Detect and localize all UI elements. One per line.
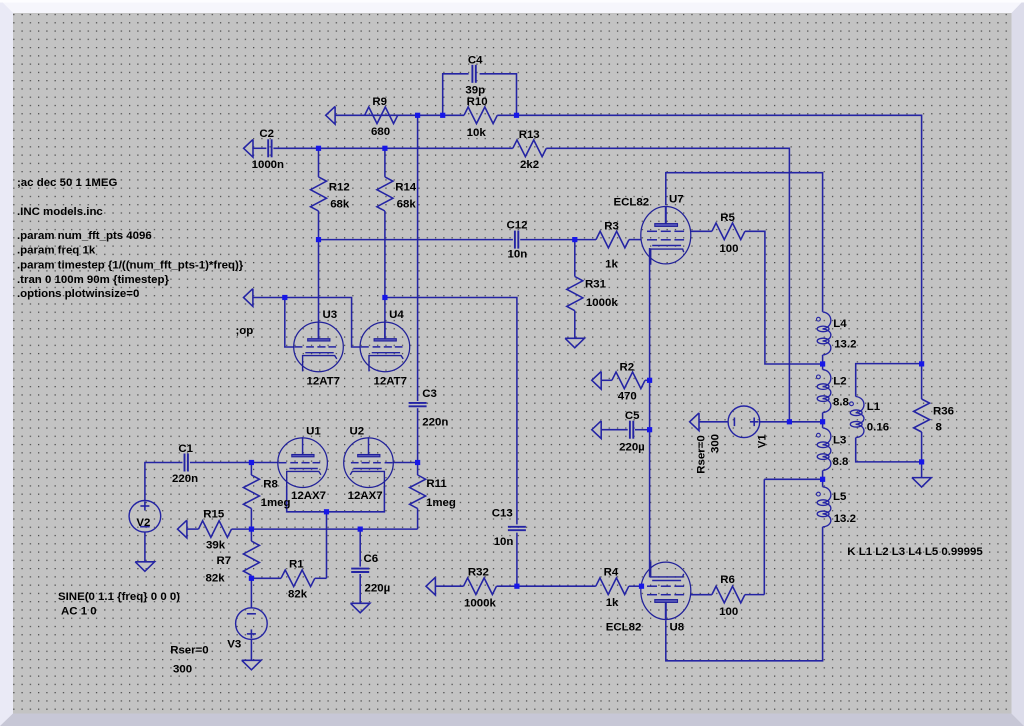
svg-text:R36: R36 <box>933 406 954 418</box>
wire R12 top lead <box>318 148 320 177</box>
wire U7 cathode line <box>649 248 651 577</box>
resistor R11 <box>410 475 456 509</box>
wire C5 to cathode line <box>635 429 650 431</box>
wire R6 riser <box>763 479 765 594</box>
capacitor C4 <box>465 54 485 96</box>
svg-text:300: 300 <box>710 434 722 453</box>
wire L2 bottom lead <box>822 413 824 422</box>
wire R5 to tap <box>745 231 823 364</box>
voltage source V1 <box>728 406 768 448</box>
wire feedback row <box>335 114 417 116</box>
svg-text:12AT7: 12AT7 <box>307 376 340 388</box>
wire C1 right <box>190 462 252 464</box>
text simulation directives <box>17 177 244 300</box>
wire U7 plate to L4 top <box>666 173 823 312</box>
wire R31 bottom lead <box>574 311 576 339</box>
junction node G <box>572 237 577 242</box>
resistor R9 <box>365 96 398 138</box>
svg-text:R9: R9 <box>372 96 387 108</box>
wire C13 bottom lead <box>516 533 518 587</box>
svg-text:Rser=0: Rser=0 <box>696 435 708 473</box>
junction node V <box>787 419 792 424</box>
wire L3 top lead <box>822 422 824 428</box>
wire R32 lead <box>436 585 464 587</box>
resistor R13 <box>513 129 547 171</box>
wire C4 left <box>443 74 469 116</box>
inductor L5 <box>817 487 856 527</box>
wire U4 plate to C13 <box>385 298 517 525</box>
wire U3 plate line <box>318 211 320 339</box>
svg-text:13.2: 13.2 <box>834 338 856 350</box>
tube U1 12AX7 <box>278 425 328 502</box>
svg-text:100: 100 <box>719 243 738 255</box>
resistor R12 <box>311 177 350 211</box>
svg-text:.INC models.inc: .INC models.inc <box>17 206 103 218</box>
svg-text:SINE(0 1.1 {freq} 0 0 0): SINE(0 1.1 {freq} 0 0 0) <box>58 591 180 603</box>
resistor R31 <box>567 277 619 311</box>
wire C12 left <box>319 239 513 241</box>
wire R7 bottom lead <box>250 575 252 578</box>
wire C3 bottom lead <box>417 408 419 462</box>
text K coupling directive <box>847 546 983 558</box>
wire U3 grid drop <box>285 298 295 348</box>
wire R4 right lead <box>629 585 641 587</box>
resistor R1 <box>281 559 315 601</box>
wire L4 bottom lead <box>822 355 824 364</box>
svg-text:L3: L3 <box>833 434 846 446</box>
junction node R <box>647 378 652 383</box>
svg-text:U1: U1 <box>306 425 321 437</box>
ground (C6) <box>351 603 370 613</box>
wire C6 ground lead <box>359 574 361 603</box>
capacitor C3 <box>409 388 449 428</box>
wire L3 bottom lead <box>822 471 824 480</box>
inductor L4 <box>817 312 857 355</box>
svg-text:100: 100 <box>719 606 738 618</box>
wire L1 bottom <box>856 438 922 462</box>
capacitor C6 <box>351 553 390 594</box>
svg-text:300: 300 <box>173 663 192 675</box>
tube U7 ECL82 <box>614 194 691 265</box>
junction node U <box>919 361 924 366</box>
wire R1 left lead <box>251 577 281 579</box>
svg-text:82k: 82k <box>206 572 226 584</box>
svg-text:10n: 10n <box>494 536 514 548</box>
svg-text:2k2: 2k2 <box>520 159 539 171</box>
svg-text:L2: L2 <box>833 376 846 388</box>
wire R3 left lead <box>575 239 596 241</box>
resistor R15 <box>199 508 232 551</box>
svg-text:R31: R31 <box>585 279 607 291</box>
junction node W <box>820 419 825 424</box>
svg-text:220n: 220n <box>422 417 448 429</box>
wire R15 lead <box>187 528 198 530</box>
wire C6 top lead <box>359 529 361 567</box>
svg-text:L4: L4 <box>833 318 847 330</box>
wire L2 top lead <box>822 364 824 370</box>
wire main vertical (R9 to C3) <box>417 115 419 401</box>
wire L1 top <box>856 364 922 397</box>
svg-text:R1: R1 <box>289 559 304 571</box>
capacitor C12 <box>507 219 528 260</box>
svg-text:220n: 220n <box>172 473 198 485</box>
wire L5 to U8 plate <box>666 527 823 661</box>
wire U2 grid lead <box>393 462 418 464</box>
port arrow (C2) <box>244 139 253 157</box>
svg-text:1000k: 1000k <box>464 597 496 609</box>
svg-text:82k: 82k <box>288 589 308 601</box>
svg-text:R13: R13 <box>519 129 540 141</box>
svg-text:U7: U7 <box>669 194 684 206</box>
wire R10 left lead <box>443 114 464 116</box>
port arrow (R32) <box>426 577 435 595</box>
svg-text:C2: C2 <box>259 128 274 140</box>
svg-text:R3: R3 <box>604 221 619 233</box>
capacitor C2 <box>252 128 284 171</box>
wire R36 bottom lead <box>921 432 923 462</box>
junction node P <box>514 584 519 589</box>
svg-text:V2: V2 <box>136 517 150 529</box>
junction node M <box>249 527 254 532</box>
wire R6 right lead <box>745 594 764 596</box>
wire C2 lead <box>252 147 266 149</box>
svg-text:.param num_fft_pts 4096: .param num_fft_pts 4096 <box>17 230 152 242</box>
svg-text:U2: U2 <box>350 425 365 437</box>
junction node D <box>316 146 321 151</box>
wire L5 top lead <box>822 479 824 487</box>
wire V1 to transformer <box>760 421 823 423</box>
wire R8 top lead <box>250 463 252 476</box>
wire R12-R14 top row <box>319 147 385 149</box>
svg-text:.tran 0 100m 90m {timestep}: .tran 0 100m 90m {timestep} <box>17 274 169 286</box>
ground (V3) <box>242 660 261 670</box>
svg-text:12AX7: 12AX7 <box>291 490 326 502</box>
svg-text:10k: 10k <box>467 127 487 139</box>
svg-text:220µ: 220µ <box>365 582 391 594</box>
port arrow (R9) <box>326 106 335 124</box>
resistor R5 <box>712 212 745 255</box>
text V3 Rser <box>170 645 208 676</box>
junction node S <box>647 427 652 432</box>
wire grid row to U4 <box>285 298 361 348</box>
resistor R4 <box>596 567 629 609</box>
wire R2 to cathode line <box>645 379 650 381</box>
svg-text:470: 470 <box>618 390 637 402</box>
svg-text:C5: C5 <box>625 410 640 422</box>
wire B+ tap to R6 <box>764 478 822 480</box>
port arrow (V1) <box>690 413 699 431</box>
resistor R7 <box>206 541 260 584</box>
svg-text:8.8: 8.8 <box>833 397 850 409</box>
resistor R3 <box>596 221 629 271</box>
junction node E <box>382 146 387 151</box>
wire U8 g2 lead <box>691 594 712 596</box>
svg-text:1000k: 1000k <box>586 297 618 309</box>
wire cathode to R1 <box>326 512 328 579</box>
wire feedback to output <box>517 115 922 364</box>
ground (V2) <box>135 562 154 572</box>
svg-text:.param timestep {1/((num_fft_p: .param timestep {1/((num_fft_pts-1)*freq… <box>17 259 244 271</box>
svg-text:1meg: 1meg <box>426 497 456 509</box>
wire C5 lead <box>602 429 628 431</box>
svg-text:ECL82: ECL82 <box>614 197 650 209</box>
port arrow (U3 grid) <box>244 289 253 307</box>
wire R11 bottom lead <box>417 509 419 530</box>
svg-text:R6: R6 <box>720 574 735 586</box>
port arrow (C5) <box>592 421 601 439</box>
junction node A <box>415 113 420 118</box>
tube U8 ECL82 <box>606 561 691 633</box>
tube U3 12AT7 <box>294 309 344 388</box>
wire C2 to R12 <box>273 147 318 149</box>
ground (output) <box>912 478 931 488</box>
junction node F <box>316 237 321 242</box>
svg-text:R32: R32 <box>468 566 489 578</box>
svg-text:68k: 68k <box>330 199 350 211</box>
wire R36 top lead <box>921 364 923 399</box>
capacitor C5 <box>619 410 645 454</box>
wire output ground lead <box>921 462 923 478</box>
wire V2 ground lead <box>144 532 146 562</box>
inductor L2 <box>817 370 850 413</box>
resistor R32 <box>464 566 497 609</box>
ground (R31) <box>565 338 584 348</box>
svg-text:1meg: 1meg <box>261 497 291 509</box>
wire R1 right lead <box>315 577 327 579</box>
wire R9-R10 row <box>418 114 443 116</box>
svg-text:R2: R2 <box>620 362 635 374</box>
junction node C <box>514 113 519 118</box>
svg-text:R7: R7 <box>217 555 232 567</box>
junction node H <box>282 295 287 300</box>
svg-text:C6: C6 <box>364 553 379 565</box>
svg-text:C3: C3 <box>422 388 437 400</box>
junction node I <box>382 295 387 300</box>
svg-text:C1: C1 <box>178 443 193 455</box>
svg-text:C4: C4 <box>468 54 483 66</box>
junction node X <box>820 477 825 482</box>
junction node J <box>249 460 254 465</box>
resistor R14 <box>377 177 417 211</box>
svg-text:;ac dec 50 1 1MEG: ;ac dec 50 1 1MEG <box>17 177 118 189</box>
svg-text:L1: L1 <box>867 401 881 413</box>
svg-text:U3: U3 <box>323 309 338 321</box>
svg-text:R10: R10 <box>467 96 488 108</box>
wire V1 port lead <box>699 421 728 423</box>
wire R15 to R8 <box>232 528 252 530</box>
wire U1 cathode drop <box>287 486 385 512</box>
wire R7 top lead <box>250 529 252 541</box>
inductor L1 <box>850 397 889 438</box>
capacitor C1 <box>172 443 198 485</box>
svg-text:39k: 39k <box>206 540 226 552</box>
wire R8 bottom lead <box>250 509 252 530</box>
svg-text:680: 680 <box>371 126 390 138</box>
svg-text:R4: R4 <box>604 567 619 579</box>
svg-text:;op: ;op <box>236 325 254 337</box>
wire C4 right <box>480 74 517 116</box>
svg-text:U4: U4 <box>389 309 404 321</box>
text V1 Rser <box>696 434 722 474</box>
wire R14 top lead <box>384 148 386 177</box>
resistor R6 <box>712 574 745 618</box>
svg-text:.param freq 1k: .param freq 1k <box>17 245 96 257</box>
svg-text:.options plotwinsize=0: .options plotwinsize=0 <box>17 288 139 300</box>
svg-text:V3: V3 <box>227 639 241 651</box>
wire grid port to U3 <box>253 297 285 299</box>
junction node L <box>324 509 329 514</box>
wire R31 top lead <box>574 240 576 277</box>
junction node N <box>358 527 363 532</box>
wire V3 ground lead <box>250 639 252 660</box>
svg-text:L5: L5 <box>833 491 847 503</box>
wire C12 right <box>520 239 575 241</box>
resistor R8 <box>243 475 290 509</box>
junction node T <box>820 361 825 366</box>
svg-text:13.2: 13.2 <box>834 513 856 525</box>
svg-text:220µ: 220µ <box>619 442 645 454</box>
text ;op <box>236 325 254 337</box>
tube U4 12AT7 <box>360 309 410 388</box>
junction node K <box>415 460 420 465</box>
capacitor C13 <box>492 508 526 549</box>
resistor R36 <box>914 399 954 433</box>
svg-text:C13: C13 <box>492 508 513 520</box>
svg-text:10n: 10n <box>508 249 528 261</box>
wire tail row <box>251 528 417 530</box>
svg-text:V1: V1 <box>757 434 769 449</box>
junction node Q <box>639 584 644 589</box>
wire R14 to R13 <box>385 147 513 149</box>
svg-text:R12: R12 <box>329 181 350 193</box>
text SINE directive <box>58 591 180 617</box>
tube U2 12AX7 <box>344 425 394 502</box>
svg-text:R8: R8 <box>263 478 278 490</box>
svg-text:K L1 L2 L3 L4 L5 0.99995: K L1 L2 L3 L4 L5 0.99995 <box>847 546 983 558</box>
svg-text:0.16: 0.16 <box>867 421 889 433</box>
wire V3 top lead <box>250 578 252 607</box>
inductor L3 <box>817 428 850 471</box>
wire U7 g2 lead <box>691 230 712 232</box>
svg-text:1k: 1k <box>605 259 618 271</box>
svg-text:8: 8 <box>936 421 943 433</box>
wire V2 to C1 <box>145 463 183 501</box>
wire R2 lead <box>602 379 612 381</box>
svg-text:Rser=0: Rser=0 <box>170 645 208 657</box>
svg-text:AC 1 0: AC 1 0 <box>61 605 97 617</box>
svg-text:C12: C12 <box>507 219 528 231</box>
svg-text:R15: R15 <box>203 508 225 520</box>
wire R11 top lead <box>417 463 419 476</box>
svg-text:R5: R5 <box>720 212 735 224</box>
svg-text:12AT7: 12AT7 <box>374 376 407 388</box>
svg-text:R14: R14 <box>395 181 417 193</box>
wire R10 right lead <box>497 114 516 116</box>
wire C13 node to R4 <box>517 585 596 587</box>
junction node O <box>249 576 254 581</box>
svg-text:68k: 68k <box>397 199 417 211</box>
junction node B <box>440 113 445 118</box>
wire U4 plate line <box>384 211 386 339</box>
svg-text:1000n: 1000n <box>252 159 284 171</box>
svg-text:U8: U8 <box>670 622 685 634</box>
svg-text:ECL82: ECL82 <box>606 622 642 634</box>
port arrow (R15) <box>178 520 187 538</box>
voltage source V3 <box>227 608 267 651</box>
wire R3 right lead <box>629 239 641 241</box>
port arrow (R2) <box>592 371 601 389</box>
wire R32 to C13 node <box>497 585 517 587</box>
resistor R10 <box>464 96 497 139</box>
voltage source V2 <box>129 501 161 533</box>
svg-text:R11: R11 <box>426 478 447 490</box>
svg-text:8.8: 8.8 <box>833 456 850 468</box>
resistor R2 <box>612 362 645 403</box>
wire U1 grid lead <box>251 462 278 464</box>
svg-text:12AX7: 12AX7 <box>348 490 383 502</box>
wire R13 to B+ drop <box>546 148 789 422</box>
junction node Y <box>919 459 924 464</box>
svg-text:1k: 1k <box>606 597 619 609</box>
